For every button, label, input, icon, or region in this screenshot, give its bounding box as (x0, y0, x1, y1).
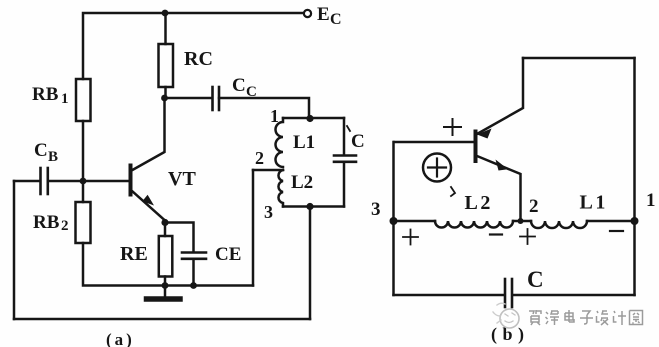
terminal EC circle (304, 10, 311, 17)
transistor VT emitter stroke (132, 191, 166, 221)
wire: base lead (b) (394, 141, 474, 144)
label CC (232, 75, 257, 100)
node: junction top rail / RC (162, 10, 169, 17)
label CE (215, 244, 241, 265)
wire: rail segment between L2 and L1 (513, 220, 531, 223)
svg-text:L2: L2 (465, 192, 493, 214)
svg-text:(a): (a) (106, 330, 135, 347)
node: CE bottom junction (190, 282, 197, 289)
phase source circle plus (423, 154, 451, 182)
svg-text:RC: RC (184, 48, 213, 70)
label (a) (106, 330, 135, 347)
wire: RC bottom to collector node (164, 87, 167, 98)
label RC (184, 48, 213, 70)
wire: RB2 bottom to inner ground rail (83, 243, 253, 286)
wire: bottom left segment (b) (394, 294, 505, 297)
svg-text:L1: L1 (580, 192, 608, 214)
inductor L1 (a) (276, 118, 284, 167)
resistor RB2 (76, 202, 91, 243)
wire: CE bottom to ground rail (192, 259, 195, 286)
wire: right vertical (b) (633, 58, 636, 295)
minus near node 1 (b) (610, 230, 623, 232)
wire: RB1 bottom to base node (82, 121, 85, 181)
svg-text:VT: VT (168, 168, 196, 190)
svg-text:CE: CE (215, 244, 241, 265)
svg-text:E: E (317, 4, 330, 25)
transistor VT collector stroke (132, 98, 165, 171)
label 3 (b) (371, 199, 381, 220)
svg-text:C: C (527, 267, 544, 292)
transistor collector stroke (b) (477, 58, 523, 134)
wire: RE bottom to ground rail (164, 277, 167, 286)
transistor VT emitter arrow (142, 195, 154, 206)
plus below node 3 (b) (403, 230, 418, 245)
transistor VT base bar (129, 166, 133, 195)
minus mid L2 (b) (490, 233, 502, 235)
wire: right vertical feedback to node 3 (309, 207, 312, 320)
wire: top supply rail (a) (83, 13, 303, 79)
label VT (168, 168, 196, 190)
wire: tank top (283, 117, 344, 120)
wire: CB left plate to left rail (14, 180, 40, 183)
wire: tank right branch top (343, 118, 346, 155)
svg-text:(b): (b) (491, 324, 530, 345)
inductor L2 (b) (435, 221, 513, 228)
wire: top rail to RC (164, 13, 167, 44)
label RB2 (33, 212, 69, 234)
label 2 (b) (529, 196, 539, 217)
node 1 (b) (631, 217, 639, 225)
resistor RC (159, 44, 174, 87)
label L2 (b) (465, 192, 493, 214)
node 3 (b) (390, 217, 398, 225)
inductor L2 (a) (278, 170, 283, 207)
tick near L2 (b) (451, 187, 455, 196)
watermark logo circle (493, 303, 519, 328)
label 2 (255, 148, 264, 168)
svg-text:RE: RE (120, 243, 148, 265)
capacitor C (a) (334, 156, 356, 162)
tick before C (347, 126, 350, 131)
resistor RB1 (76, 79, 91, 121)
plus right of node 2 (b) (520, 229, 535, 244)
transistor emitter stroke (b) (477, 156, 521, 221)
wire: collector node to CC (165, 97, 212, 100)
svg-text:C: C (34, 140, 48, 161)
wire: node 2 riser down to ground rail (252, 170, 255, 286)
capacitor CB (41, 168, 48, 194)
plus mark above base (b) (444, 119, 461, 135)
collector arrow (b) (477, 129, 492, 139)
node 1 (306, 115, 313, 122)
node: emitter junction (161, 219, 168, 226)
wire: tank bottom (283, 205, 344, 208)
node: tank bottom junction (306, 203, 313, 210)
label 3 (264, 202, 273, 222)
svg-text:2: 2 (529, 196, 539, 217)
wire: bottom right segment (b) (513, 294, 635, 297)
svg-text:2: 2 (61, 218, 69, 234)
label L2 (a) (291, 172, 313, 193)
wire: CC to node 1 (219, 98, 309, 118)
wire: tap node 2 to left (253, 169, 283, 172)
svg-text:RB: RB (32, 84, 59, 105)
watermark text 贸泽电子设计圈 (529, 310, 643, 325)
label 1 (270, 106, 279, 126)
label EC (317, 4, 342, 28)
node: RE bottom junction (162, 282, 169, 289)
svg-text:C: C (330, 11, 342, 28)
label L1 (a) (293, 132, 315, 153)
wire: outer bottom feedback rail (14, 318, 310, 321)
svg-text:L1: L1 (293, 132, 315, 153)
label RB1 (32, 84, 69, 107)
wire: base node to RB2 top (82, 181, 85, 202)
wire: left vertical feedback rail (13, 181, 16, 319)
node 2 (b) (518, 218, 524, 224)
capacitor CE (182, 253, 206, 259)
svg-text:B: B (48, 149, 58, 165)
wire: tank right branch bottom (343, 162, 346, 207)
capacitor C (b) (505, 279, 512, 307)
label CB (34, 140, 58, 165)
wire: left vertical to bottom (b) (392, 221, 395, 295)
ground (147, 286, 181, 300)
svg-text:1: 1 (646, 190, 656, 211)
transistor base bar (b) (474, 132, 478, 162)
label 1 (b) (646, 190, 656, 211)
label L1 (b) (580, 192, 608, 214)
label (b) (491, 324, 530, 345)
label RE (120, 243, 148, 265)
capacitor CC (213, 87, 220, 110)
inductor L1 (b) (531, 221, 587, 228)
emitter arrow (b) (496, 160, 509, 171)
wire: top rail (b) (523, 57, 635, 60)
node: base junction (80, 178, 87, 185)
wire: rail to node 1 (587, 220, 635, 223)
svg-text:1: 1 (61, 91, 69, 107)
wire: CB right plate to base node (48, 180, 83, 183)
svg-text:RB: RB (33, 212, 60, 233)
svg-text:L2: L2 (291, 172, 313, 193)
node: collector junction (161, 95, 168, 102)
svg-text:3: 3 (371, 199, 381, 220)
svg-text:3: 3 (264, 202, 273, 222)
wire: emitter node to CE branch (165, 223, 194, 253)
resistor RE (159, 236, 173, 277)
label C (a) (351, 131, 365, 152)
svg-text:C: C (351, 131, 365, 152)
wire: emitter node to RE (164, 223, 167, 237)
wire: left vertical (b) (392, 142, 395, 221)
label C (b) (527, 267, 544, 292)
rail: resonant line (b) (394, 220, 436, 223)
svg-text:2: 2 (255, 148, 264, 168)
wire: base node to transistor base (83, 180, 129, 183)
svg-text:C: C (232, 75, 246, 96)
